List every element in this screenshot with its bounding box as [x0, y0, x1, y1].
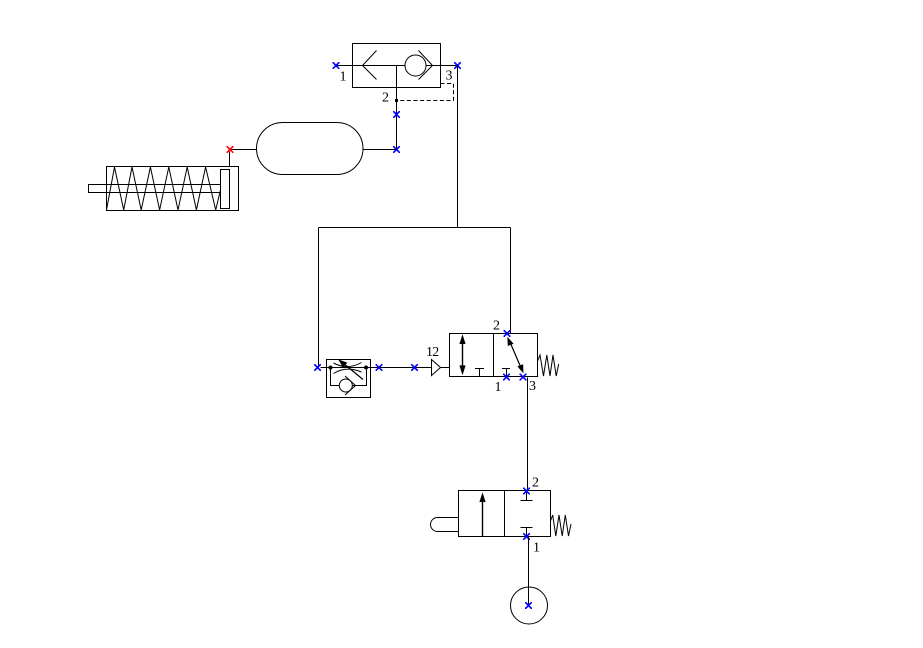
- port 3 of V1: [520, 374, 527, 381]
- flow control valve adjustment arrow shaft: [343, 363, 363, 380]
- valve V1 diagonal arrow head bottom: [517, 364, 523, 373]
- svg-text:12: 12: [426, 345, 439, 360]
- open connection red X: [227, 146, 234, 153]
- svg-text:2: 2: [532, 476, 539, 491]
- flow control valve check seat: [345, 376, 356, 395]
- valve S1 pushbutton: [431, 518, 459, 532]
- svg-text:2: 2: [382, 91, 389, 106]
- wire net A: horizontal distribution: [319, 227, 511, 229]
- 3/2-way pilot valve V1 body: [450, 334, 538, 377]
- valve S1 cell divider: [504, 491, 506, 537]
- quick exhaust valve V3 port 1 stub: [337, 65, 353, 67]
- port left of flow control valve: [314, 364, 321, 371]
- compressed air source 0Z circle: [511, 587, 548, 624]
- port 1 of S1: [523, 533, 530, 540]
- svg-text:1: 1: [340, 70, 347, 85]
- svg-text:2: 2: [493, 319, 500, 334]
- quick exhaust valve V3 pilot dashed line: [397, 84, 454, 101]
- quick exhaust valve V3 internal flow line: [353, 65, 441, 67]
- wire from V1 port 3 to valve S1 port 2: [527, 378, 529, 491]
- flow control valve check ball: [339, 379, 352, 392]
- flow control valve throttle lower arc: [334, 369, 362, 373]
- air reservoir Z1: [257, 123, 364, 175]
- quick exhaust valve V3 port 3 stub: [441, 65, 458, 67]
- node on wire at V3 port 2: [393, 111, 400, 118]
- valve V1 pilot stub to body: [441, 367, 450, 369]
- svg-text:3: 3: [446, 69, 453, 84]
- valve V1 cell divider: [493, 334, 495, 377]
- port 12 of V1: [411, 364, 418, 371]
- single-acting cylinder A1 body: [107, 167, 239, 211]
- port 3 of V3: [454, 62, 461, 69]
- port 2 of V1: [504, 330, 511, 337]
- valve S1 left cell arrow head: [479, 492, 485, 502]
- main flow line through flow control valve and pilot wire: [321, 367, 432, 369]
- quick exhaust valve V3 check valve ball: [405, 55, 426, 76]
- valve V1 pilot triangle: [432, 360, 441, 376]
- port 2 of S1: [523, 488, 530, 495]
- valve V1 diagonal arrow head top: [507, 337, 513, 346]
- port of air source: [525, 602, 532, 609]
- valve V1 left cell arrow head bottom: [459, 365, 465, 375]
- port 1 of V3: [333, 62, 340, 69]
- valve V1 return spring: [538, 355, 559, 376]
- valve S1 right cell blocked port T bottom: [521, 528, 533, 537]
- quick exhaust valve V3 pilot junction dot: [395, 99, 398, 102]
- wire net A: right drop to valve V1 port 2: [510, 228, 512, 334]
- flow control valve adjustment arrow head: [338, 359, 347, 367]
- svg-text:3: 3: [529, 379, 536, 394]
- wire from red X down to cylinder port: [229, 152, 231, 167]
- flow control valve throttle upper arc: [334, 363, 362, 367]
- wire from V3 port 2 down to reservoir tee: [396, 88, 398, 150]
- flow control valve junction dot left: [329, 366, 333, 370]
- flow control valve bypass loop: [331, 368, 367, 386]
- wire reservoir right stub: [363, 149, 397, 151]
- wire net A: vertical from V3 port 3: [457, 66, 459, 228]
- cylinder A1 piston rod: [89, 185, 221, 193]
- svg-text:1: 1: [533, 541, 540, 556]
- port right of flow control valve: [376, 364, 383, 371]
- quick exhaust valve V3 body: [353, 44, 441, 88]
- quick exhaust valve V3 internal port-2 line: [396, 66, 398, 88]
- wire from S1 port 1 to air source: [528, 537, 530, 606]
- quick exhaust valve V3 check valve seat: [419, 51, 433, 80]
- svg-text:1: 1: [495, 380, 502, 395]
- valve V1 right cell blocked port T: [502, 369, 510, 377]
- 3/2-way pushbutton valve S1 body: [459, 491, 551, 537]
- node at reservoir right port: [393, 146, 400, 153]
- port 1 of V1: [503, 374, 510, 381]
- valve V1 left cell blocked port T: [475, 369, 484, 377]
- valve V1 left cell flow arrow shaft: [462, 337, 464, 373]
- quick exhaust valve V3 arrow to port 1: [363, 51, 377, 80]
- valve V1 left cell arrow head top: [459, 334, 465, 344]
- valve V1 right cell diagonal arrow shaft: [510, 341, 522, 369]
- valve S1 left cell flow arrow shaft: [482, 496, 484, 537]
- wire reservoir left stub: [232, 149, 257, 151]
- flow control valve junction dot right: [364, 366, 368, 370]
- one-way flow control valve V2 body: [327, 360, 371, 398]
- wire net A: left drop to flow control valve: [318, 228, 320, 369]
- valve S1 right cell blocked port T top: [521, 491, 533, 501]
- cylinder A1 piston: [221, 170, 230, 209]
- cylinder A1 return spring: [107, 167, 221, 210]
- valve S1 return spring: [551, 515, 572, 536]
